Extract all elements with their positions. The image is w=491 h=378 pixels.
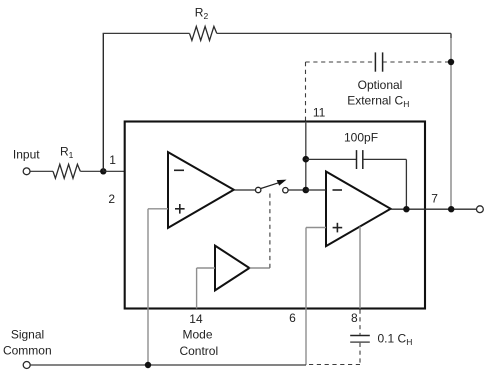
IC box bbox=[125, 122, 425, 309]
svg-text:11: 11 bbox=[313, 106, 326, 120]
capacitor 100pF bbox=[357, 150, 363, 169]
wire pin 14 riser bbox=[196, 268, 198, 309]
A1 minus sign bbox=[174, 169, 184, 171]
switch pole contact bbox=[256, 187, 261, 192]
svg-text:1: 1 bbox=[109, 153, 116, 167]
capacitor 0.1 CH bbox=[350, 336, 370, 343]
wire A1 output bbox=[234, 189, 256, 191]
signal common terminal bbox=[23, 362, 30, 369]
wire dashed pin 11 drop bbox=[305, 62, 307, 121]
buffer amplifier bbox=[215, 246, 249, 291]
svg-text:7: 7 bbox=[431, 191, 438, 205]
svg-text:6: 6 bbox=[289, 311, 296, 325]
wire A1 plus input bbox=[148, 208, 168, 210]
A2 minus sign bbox=[333, 189, 343, 191]
input terminal bbox=[23, 168, 30, 175]
svg-text:2: 2 bbox=[108, 192, 115, 206]
output terminal bbox=[477, 206, 484, 213]
wire top feedback right bbox=[217, 32, 451, 34]
svg-text:100pF: 100pF bbox=[344, 131, 378, 145]
wire dashed optional CH left bbox=[306, 61, 376, 63]
svg-text:External CH: External CH bbox=[347, 94, 409, 110]
svg-text:Optional: Optional bbox=[358, 78, 403, 92]
svg-text:Common: Common bbox=[3, 344, 52, 358]
A2 plus sign bbox=[333, 223, 343, 233]
wire input lead bbox=[30, 170, 53, 172]
svg-text:8: 8 bbox=[351, 311, 358, 325]
switch arm with arrow bbox=[261, 180, 287, 189]
svg-text:14: 14 bbox=[189, 312, 203, 326]
A1 plus sign bbox=[175, 204, 185, 214]
wire dashed switch to buffer bbox=[269, 194, 271, 269]
node A2 inverting input junction bbox=[303, 187, 310, 194]
svg-text:Control: Control bbox=[179, 344, 218, 358]
wire switch to node bbox=[288, 189, 306, 191]
wire dashed 0.1 CH bottom leg bbox=[359, 343, 361, 365]
resistor R1 bbox=[53, 164, 80, 178]
wire A2 minus input bbox=[306, 189, 326, 191]
op-amp A1 bbox=[168, 152, 234, 228]
label Mode Control bbox=[179, 328, 218, 358]
switch throw contact bbox=[283, 188, 288, 193]
svg-text:Input: Input bbox=[13, 147, 40, 161]
wire pin 6 riser bbox=[305, 228, 307, 366]
wire dashed to pin 6 riser bbox=[306, 364, 360, 366]
wire buffer output bbox=[249, 267, 270, 269]
wire top feedback left bbox=[103, 32, 190, 34]
capacitor optional external CH bbox=[375, 52, 382, 71]
wire A2 plus input bbox=[306, 227, 326, 229]
op-amp A2 bbox=[326, 172, 391, 247]
wire node 1 riser up bbox=[102, 33, 104, 171]
wire R1 to node 1 bbox=[80, 170, 103, 172]
wire A2 output bbox=[391, 208, 477, 210]
wire signal common bbox=[30, 364, 306, 366]
wire right feedback down bbox=[450, 33, 452, 38]
node optional CH right junction bbox=[448, 59, 454, 65]
resistor R2 bbox=[190, 26, 217, 40]
svg-text:Signal: Signal bbox=[11, 328, 44, 342]
svg-text:Mode: Mode bbox=[182, 328, 212, 342]
wire pin 8 bbox=[359, 227, 361, 309]
node 100pF tap junction bbox=[303, 156, 310, 163]
wire 100pF to output bbox=[363, 159, 407, 209]
node output feedback junction bbox=[403, 206, 409, 212]
wire node to 100pF bbox=[306, 158, 357, 160]
label Optional External CH bbox=[347, 78, 409, 109]
node 1 junction bbox=[100, 168, 106, 174]
wire dashed pin 8 below box bbox=[359, 310, 361, 335]
node output R2 junction bbox=[448, 206, 454, 212]
wire dashed optional CH right bbox=[383, 61, 451, 63]
label Signal Common bbox=[3, 328, 52, 358]
wire A1 plus riser to common bbox=[147, 209, 149, 365]
wire buffer input bbox=[197, 267, 215, 269]
node common junction bbox=[145, 362, 151, 368]
wire node 1 to box pin 1 bbox=[103, 170, 124, 172]
wire pin 11 internal drop bbox=[305, 122, 307, 191]
